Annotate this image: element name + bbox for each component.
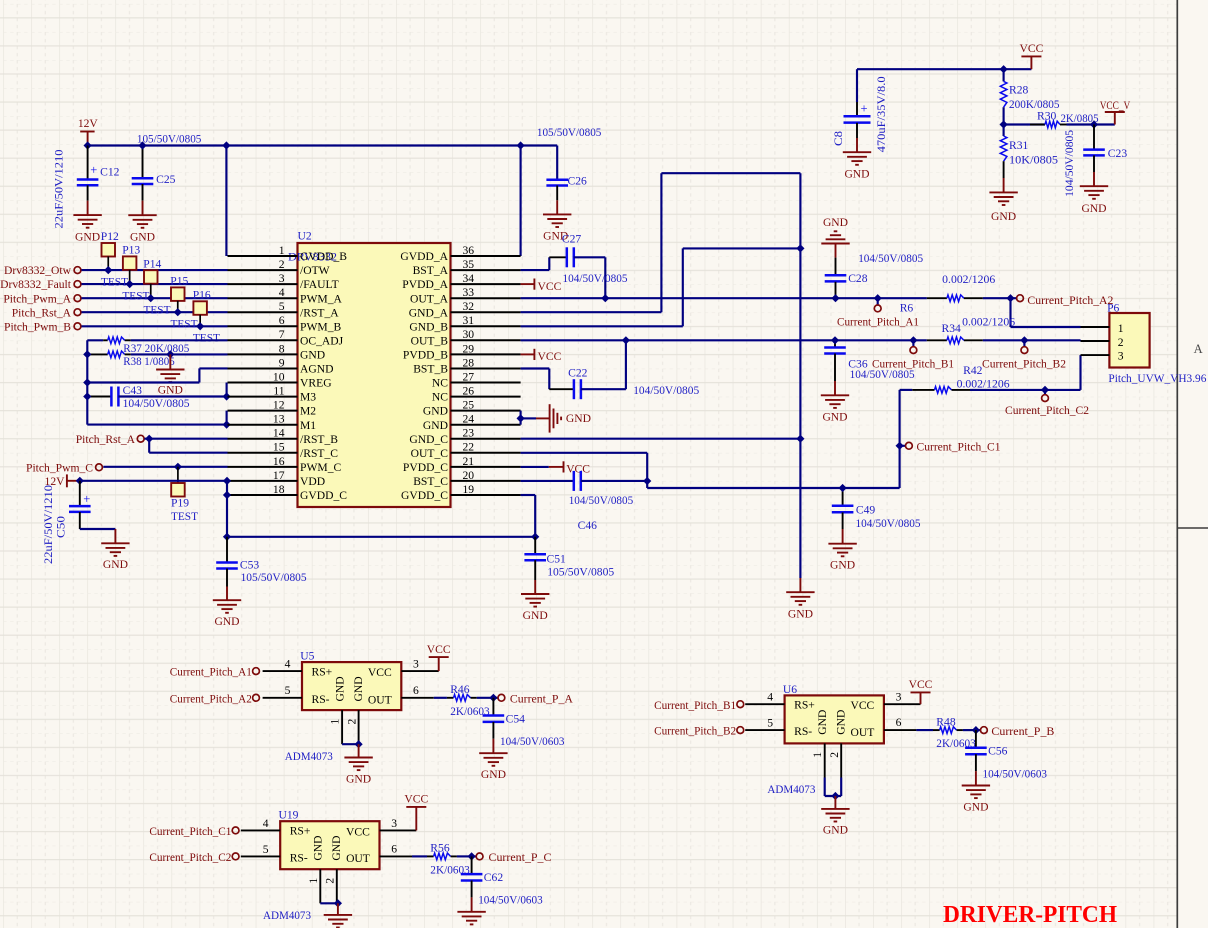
svg-text:GND: GND xyxy=(566,412,591,425)
port Current_Pitch_B2 xyxy=(1023,340,1025,346)
junction C53 tap xyxy=(223,533,231,541)
svg-text:VCC: VCC xyxy=(850,699,874,712)
U2 pin 1 GVDD_B xyxy=(228,255,298,257)
wire BST riser pin36 xyxy=(520,146,522,257)
svg-text:U2: U2 xyxy=(298,229,312,242)
wire GND_A route xyxy=(521,311,662,313)
wire Pitch_Pwm_C to pin16 xyxy=(103,466,227,468)
svg-text:104/50V/0805: 104/50V/0805 xyxy=(123,397,190,410)
wire Drv8332_Fault to U2 pin 3 xyxy=(82,283,228,285)
svg-text:6: 6 xyxy=(413,684,419,697)
port Current_Pitch_C2 xyxy=(1044,390,1046,395)
U2 pin 31 GND_B xyxy=(451,325,521,327)
junction C49/OUT_C xyxy=(839,484,847,492)
svg-text:R37 20K/0805: R37 20K/0805 xyxy=(123,342,189,355)
junction at 12V/C12 xyxy=(84,141,92,149)
svg-text:VCC_V: VCC_V xyxy=(1100,99,1131,112)
capacitor C46 (BST_C) xyxy=(521,480,574,482)
resistor R56 xyxy=(412,855,427,857)
svg-text:VCC: VCC xyxy=(368,666,392,679)
svg-text:R28: R28 xyxy=(1009,84,1029,97)
junction VDD pin17 xyxy=(223,477,231,485)
svg-text:12: 12 xyxy=(273,399,285,412)
svg-text:C51: C51 xyxy=(547,552,567,565)
junction C28/OUT_A xyxy=(831,294,839,302)
svg-text:31: 31 xyxy=(463,314,475,327)
P6 pin 1 xyxy=(1081,326,1110,328)
resistor R6 xyxy=(927,297,947,299)
wire OUT_A to P6 pin1 xyxy=(1009,298,1011,327)
junction R28 top xyxy=(1000,65,1008,73)
U2 pin 29 PVDD_B xyxy=(451,353,521,355)
svg-text:7: 7 xyxy=(279,328,285,341)
svg-text:TEST: TEST xyxy=(171,318,198,331)
wire GND_B route xyxy=(521,325,683,327)
U2 pin 10 VREG xyxy=(228,382,298,384)
capacitor C28 xyxy=(821,243,849,245)
svg-text:Pitch_UVW_VH3.96: Pitch_UVW_VH3.96 xyxy=(1108,372,1206,385)
wire Pitch_Pwm_B to U2 pin 6 xyxy=(82,325,228,327)
port Current_P output of U5 xyxy=(493,697,498,699)
port Current_Pitch_A2 xyxy=(1011,297,1017,299)
svg-text:104/50V/0805: 104/50V/0805 xyxy=(1063,130,1076,197)
svg-text:M1: M1 xyxy=(300,419,316,432)
svg-text:R31: R31 xyxy=(1009,139,1029,152)
svg-text:GND: GND xyxy=(822,411,847,424)
svg-text:OUT_C: OUT_C xyxy=(411,447,449,460)
svg-text:5: 5 xyxy=(285,684,291,697)
svg-text:TEST: TEST xyxy=(144,304,171,317)
svg-text:GND: GND xyxy=(1081,202,1106,215)
op-amp U19 body xyxy=(280,821,379,869)
port Current_P output of U19 xyxy=(472,855,477,857)
svg-text:104/50V/0603: 104/50V/0603 xyxy=(478,894,543,907)
svg-text:2: 2 xyxy=(324,878,337,884)
svg-text:0.002/1206: 0.002/1206 xyxy=(962,316,1015,329)
junction C36/OUT_B xyxy=(831,336,839,344)
U2 pin 26 NC xyxy=(451,396,521,398)
svg-text:/RST_B: /RST_B xyxy=(300,433,338,446)
svg-text:PWM_B: PWM_B xyxy=(300,320,341,333)
svg-text:18: 18 xyxy=(273,483,285,496)
svg-text:GND: GND xyxy=(823,216,848,229)
P6 pin 3 xyxy=(1081,354,1110,356)
svg-text:28: 28 xyxy=(463,356,475,369)
junction C56 tap xyxy=(972,726,980,734)
U2 pin 23 GND_C xyxy=(451,438,521,440)
junction Current_Pitch_B2 xyxy=(1020,336,1028,344)
svg-text:C56: C56 xyxy=(988,745,1008,758)
wire VREG to M3 xyxy=(226,383,228,397)
svg-text:20: 20 xyxy=(463,469,475,482)
svg-text:C62: C62 xyxy=(484,871,504,884)
capacitor C51 xyxy=(534,537,536,554)
U5 pin 3 VCC xyxy=(401,670,438,672)
svg-text:PVDD_B: PVDD_B xyxy=(403,349,448,362)
svg-text:GND: GND xyxy=(158,383,183,396)
junction R38 ground tap xyxy=(166,350,174,358)
capacitor C36 xyxy=(834,340,836,347)
junction C62 tap xyxy=(468,852,476,860)
svg-text:Current_Pitch_B1: Current_Pitch_B1 xyxy=(872,357,954,370)
svg-text:PWM_A: PWM_A xyxy=(300,292,342,305)
svg-text:GVDD_A: GVDD_A xyxy=(400,250,448,263)
svg-text:4: 4 xyxy=(279,286,285,299)
svg-text:4: 4 xyxy=(767,691,773,704)
svg-text:Current_Pitch_A1: Current_Pitch_A1 xyxy=(837,315,919,328)
svg-text:BST_C: BST_C xyxy=(413,475,448,488)
wire Pitch_Rst_A to U2 pin 5 xyxy=(82,311,228,313)
junction C27/OUT_A xyxy=(601,294,609,302)
U2 pin 25 GND xyxy=(451,410,521,412)
capacitor C27 (BST_A) xyxy=(521,269,550,271)
svg-text:105/50V/0805: 105/50V/0805 xyxy=(547,566,614,579)
svg-text:C28: C28 xyxy=(848,272,868,285)
capacitor C8 xyxy=(856,69,858,102)
svg-text:3: 3 xyxy=(896,691,902,704)
power port VCC at U5 xyxy=(429,656,449,658)
svg-text:GND: GND xyxy=(423,419,448,432)
svg-text:/RST_A: /RST_A xyxy=(300,306,339,319)
svg-text:GND_A: GND_A xyxy=(409,306,449,319)
svg-text:27: 27 xyxy=(463,370,475,383)
svg-text:6: 6 xyxy=(391,843,397,856)
svg-text:5: 5 xyxy=(767,717,773,730)
svg-text:35: 35 xyxy=(463,258,475,271)
svg-text:Current_Pitch_C1: Current_Pitch_C1 xyxy=(917,440,1001,453)
svg-text:14: 14 xyxy=(273,427,285,440)
svg-text:22uF/50V/1210: 22uF/50V/1210 xyxy=(42,485,55,564)
svg-text:NC: NC xyxy=(432,377,448,390)
resistor R48 xyxy=(916,729,933,731)
wire VCC top xyxy=(857,68,1031,70)
port Current_Pitch_C1 xyxy=(900,445,906,447)
svg-text:TEST: TEST xyxy=(171,510,198,523)
U2 pin 19 GVDD_C xyxy=(451,494,521,496)
resistor R28 xyxy=(1003,69,1005,81)
ground below U6 xyxy=(834,796,836,809)
svg-text:VCC: VCC xyxy=(538,280,562,293)
junction Current_Pitch_C1 xyxy=(896,442,904,450)
U2 pin 28 BST_B xyxy=(451,368,521,370)
junction R28/R31/R30 xyxy=(1000,120,1008,128)
wire U5 gnd join xyxy=(342,743,359,745)
U2 pin 22 OUT_C xyxy=(451,452,521,454)
port Current_Pitch_B1 xyxy=(912,340,914,346)
svg-text:21: 21 xyxy=(463,455,475,468)
svg-text:25: 25 xyxy=(463,399,475,412)
svg-text:GND: GND xyxy=(788,607,813,620)
svg-text:23: 23 xyxy=(463,427,475,440)
svg-text:VREG: VREG xyxy=(300,377,332,390)
U2 pin 7 OC_ADJ xyxy=(228,339,298,341)
svg-text:R42: R42 xyxy=(963,364,983,377)
capacitor C54 xyxy=(492,698,494,716)
wire ground bus vertical xyxy=(799,173,801,578)
svg-text:GND: GND xyxy=(103,558,128,571)
power port VCC_V xyxy=(1114,112,1116,125)
U2 pin 6 PWM_B xyxy=(228,325,298,327)
svg-text:GND: GND xyxy=(214,615,239,628)
svg-text:OC_ADJ: OC_ADJ xyxy=(300,334,344,347)
svg-text:GND: GND xyxy=(352,676,365,701)
svg-text:BST_A: BST_A xyxy=(413,264,449,277)
ground below C53 xyxy=(213,599,241,601)
svg-text:105/50V/0805: 105/50V/0805 xyxy=(537,126,602,139)
svg-text:Pitch_Pwm_B: Pitch_Pwm_B xyxy=(4,320,71,333)
svg-text:16: 16 xyxy=(273,455,285,468)
svg-text:8: 8 xyxy=(279,342,285,355)
ground below C56 xyxy=(962,785,990,787)
svg-text:/OTW: /OTW xyxy=(300,264,330,277)
wire U6 gnd join xyxy=(824,778,826,797)
svg-text:105/50V/0805: 105/50V/0805 xyxy=(137,132,202,145)
svg-text:AGND: AGND xyxy=(300,363,334,376)
wire Drv8332_Otw to U2 pin 2 xyxy=(82,269,228,271)
power port VCC at pin29 xyxy=(521,353,535,355)
junction Current_Pitch_A2 xyxy=(1006,294,1014,302)
U19 pins 1 2 GND xyxy=(319,869,321,903)
svg-text:13: 13 xyxy=(273,413,285,426)
svg-text:2: 2 xyxy=(279,258,285,271)
svg-text:12V: 12V xyxy=(78,117,99,130)
U2 pin 15 /RST_C xyxy=(228,452,298,454)
resistor R34 xyxy=(927,339,947,341)
junction C23 tap xyxy=(1090,120,1098,128)
svg-text:P19: P19 xyxy=(171,496,189,509)
junction U6 gnd xyxy=(831,792,839,800)
U5 pins 1 2 GND xyxy=(341,710,343,744)
sheet zone divider xyxy=(1177,527,1208,529)
U2 pin 36 GVDD_A xyxy=(451,255,521,257)
resistor R37 xyxy=(87,339,103,341)
junction P19 tap xyxy=(174,463,182,471)
svg-text:OUT: OUT xyxy=(346,852,370,865)
junction GND_B bus xyxy=(796,244,804,252)
svg-text:2: 2 xyxy=(345,718,358,724)
ground below C54 xyxy=(479,752,507,754)
junction Current_Pitch_C2 xyxy=(1041,386,1049,394)
svg-text:GND: GND xyxy=(523,609,548,622)
svg-text:GND: GND xyxy=(330,835,343,860)
ground below C36 xyxy=(821,394,849,396)
capacitor C12 xyxy=(87,146,89,180)
capacitor C49 xyxy=(842,488,844,506)
svg-text:22: 22 xyxy=(463,441,475,454)
capacitor C56 xyxy=(975,730,977,748)
svg-text:Current_Pitch_B2: Current_Pitch_B2 xyxy=(654,725,736,738)
svg-text:VCC: VCC xyxy=(566,463,590,476)
U6 pin 4 RS+ xyxy=(745,703,784,705)
svg-text:C26: C26 xyxy=(568,175,588,188)
svg-text:OUT_A: OUT_A xyxy=(410,292,449,305)
svg-text:104/50V/0805: 104/50V/0805 xyxy=(569,494,634,507)
junction at C25 xyxy=(138,141,146,149)
ground at R38 xyxy=(169,354,171,369)
junction R38 left xyxy=(83,350,91,358)
svg-text:M2: M2 xyxy=(300,405,316,418)
svg-text:GND: GND xyxy=(823,824,848,837)
svg-text:3: 3 xyxy=(391,817,397,830)
junction C51 tap xyxy=(531,533,539,541)
capacitor C22 (BST_B) xyxy=(521,367,550,369)
svg-text:NC: NC xyxy=(432,391,448,404)
svg-text:P14: P14 xyxy=(143,257,161,270)
U2 pin 17 VDD xyxy=(228,480,298,482)
svg-text:4: 4 xyxy=(263,817,269,830)
svg-text:GND_B: GND_B xyxy=(409,320,448,333)
svg-text:U5: U5 xyxy=(300,650,314,663)
junction U5 gnd xyxy=(355,740,363,748)
ground below U5 xyxy=(358,744,360,757)
ground below C25 xyxy=(128,214,156,216)
svg-text:1: 1 xyxy=(307,878,320,884)
ground below C50 xyxy=(101,542,129,544)
U2 pin 32 GND_A xyxy=(451,311,521,313)
ground below R31 xyxy=(989,191,1017,193)
wire 12V riser to C53 xyxy=(226,481,228,537)
op-amp U5 body xyxy=(302,662,401,710)
ground below C8 xyxy=(843,151,871,153)
U2 pin 2 /OTW xyxy=(228,269,298,271)
svg-text:470uF/35V/8.0: 470uF/35V/8.0 xyxy=(875,76,888,152)
resistor R42 xyxy=(900,389,913,391)
wire 12V top bus xyxy=(88,144,558,146)
svg-text:Current_Pitch_A2: Current_Pitch_A2 xyxy=(1027,294,1113,307)
svg-text:+: + xyxy=(90,163,97,177)
U6 pin 5 RS- xyxy=(745,729,784,731)
svg-text:VCC: VCC xyxy=(404,793,428,806)
ground below C51 xyxy=(521,593,549,595)
junction GND_C bus xyxy=(796,435,804,443)
port Current_Pitch_A1 xyxy=(877,298,879,305)
svg-text:R48: R48 xyxy=(936,715,956,728)
U2 pin 27 NC xyxy=(451,382,521,384)
svg-text:10: 10 xyxy=(273,370,285,383)
svg-text:33: 33 xyxy=(463,286,475,299)
svg-text:PVDD_C: PVDD_C xyxy=(403,461,448,474)
svg-text:GVDD_B: GVDD_B xyxy=(300,250,347,263)
U5 pin 4 RS+ xyxy=(263,670,302,672)
svg-text:22uF/50V/1210: 22uF/50V/1210 xyxy=(52,149,65,228)
svg-text:104/50V/0805: 104/50V/0805 xyxy=(858,252,923,265)
svg-text:17: 17 xyxy=(273,469,285,482)
svg-text:VCC: VCC xyxy=(427,643,451,656)
svg-text:C49: C49 xyxy=(856,504,876,517)
capacitor C62 xyxy=(471,856,473,874)
svg-text:Pitch_Rst_A: Pitch_Rst_A xyxy=(76,433,136,446)
junction at pin36 riser xyxy=(517,141,525,149)
U6 pins 1 2 GND xyxy=(824,743,826,777)
svg-text:Current_Pitch_C2: Current_Pitch_C2 xyxy=(1005,404,1089,417)
svg-text:34: 34 xyxy=(463,272,475,285)
svg-text:Current_P_A: Current_P_A xyxy=(510,693,574,706)
wire M1 M2 tie xyxy=(87,424,226,426)
svg-text:104/50V/0805: 104/50V/0805 xyxy=(633,384,699,397)
svg-text:R56: R56 xyxy=(430,842,450,855)
power port VCC at pin21 xyxy=(521,466,549,468)
junction 12V/C50 xyxy=(76,477,84,485)
resistor R46 xyxy=(434,697,447,699)
svg-text:ADM4073: ADM4073 xyxy=(285,750,333,763)
svg-text:GND: GND xyxy=(830,559,855,572)
svg-text:+: + xyxy=(83,492,90,506)
resistor R31 xyxy=(1003,125,1005,137)
U6 pin 3 VCC xyxy=(884,703,921,705)
svg-text:C46: C46 xyxy=(578,519,598,532)
U5 pin 6 OUT xyxy=(401,697,434,699)
svg-text:C53: C53 xyxy=(240,559,260,572)
svg-text:A: A xyxy=(1194,342,1203,356)
junction C46/OUT_C xyxy=(643,477,651,485)
U2 pin 18 GVDD_C xyxy=(228,494,298,496)
svg-text:ADM4073: ADM4073 xyxy=(767,783,815,796)
svg-text:C22: C22 xyxy=(568,367,588,380)
svg-text:Current_Pitch_C2: Current_Pitch_C2 xyxy=(149,851,231,864)
junction P15 xyxy=(174,308,182,316)
capacitor C53 xyxy=(226,537,228,563)
svg-text:M3: M3 xyxy=(300,391,316,404)
U2 pin 33 OUT_A xyxy=(451,297,521,299)
svg-text:P16: P16 xyxy=(193,289,211,302)
test point P13 xyxy=(123,256,136,270)
svg-text:P6: P6 xyxy=(1107,302,1119,315)
svg-text:Current_Pitch_C1: Current_Pitch_C1 xyxy=(149,825,231,838)
wire OUT_C xyxy=(521,452,648,454)
ground main bus xyxy=(799,578,801,592)
svg-text:15: 15 xyxy=(273,441,285,454)
U19 pin 4 RS+ xyxy=(241,829,280,831)
wire GND_C xyxy=(521,438,801,440)
svg-text:/RST_C: /RST_C xyxy=(300,447,338,460)
U2 pin 20 BST_C xyxy=(451,480,521,482)
wire OUT_A xyxy=(521,297,927,299)
svg-text:2: 2 xyxy=(1118,336,1124,349)
svg-text:3: 3 xyxy=(413,658,419,671)
U2 pin 9 AGND xyxy=(228,368,298,370)
svg-text:104/50V/0805: 104/50V/0805 xyxy=(856,517,921,530)
svg-text:GND: GND xyxy=(130,231,155,244)
svg-text:VCC: VCC xyxy=(538,350,562,363)
svg-text:R46: R46 xyxy=(450,683,470,696)
svg-text:VCC: VCC xyxy=(1019,42,1043,55)
svg-text:C27: C27 xyxy=(562,232,582,245)
svg-text:PVDD_A: PVDD_A xyxy=(402,278,448,291)
svg-text:11: 11 xyxy=(273,385,284,398)
svg-text:9: 9 xyxy=(279,356,285,369)
svg-text:GND: GND xyxy=(991,210,1016,223)
svg-text:GND: GND xyxy=(423,405,448,418)
U2 pin 5 /RST_A xyxy=(228,311,298,313)
svg-text:GND: GND xyxy=(816,710,829,735)
svg-text:Drv8332_Fault: Drv8332_Fault xyxy=(0,278,72,291)
svg-text:TEST: TEST xyxy=(122,289,149,302)
junction P12 xyxy=(104,266,112,274)
U5 pin 5 RS- xyxy=(263,697,302,699)
ground below C49 xyxy=(828,543,856,545)
svg-text:3: 3 xyxy=(1118,349,1124,362)
sheet border right edge xyxy=(1176,0,1178,928)
U2 pin 13 M1 xyxy=(228,424,298,426)
svg-text:Pitch_Pwm_C: Pitch_Pwm_C xyxy=(26,461,93,474)
svg-text:R38 1/0805: R38 1/0805 xyxy=(123,355,175,368)
svg-text:+: + xyxy=(860,101,867,115)
wire RST_B to RST_C xyxy=(148,439,150,453)
svg-text:OUT_B: OUT_B xyxy=(411,334,449,347)
wire Pitch_Pwm_A to U2 pin 4 xyxy=(82,297,228,299)
svg-text:P13: P13 xyxy=(122,244,140,257)
capacitor C43 xyxy=(87,396,111,398)
